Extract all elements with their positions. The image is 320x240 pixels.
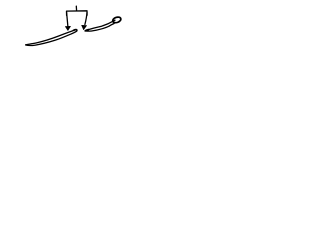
bracket B1 center tick [75,6,77,11]
wire W2 right segment top edge [88,20,115,29]
wire W1 left segment top edge [26,30,76,45]
wire W2 end loop [112,16,122,24]
wire W1 left segment bottom edge [26,31,77,46]
wire W2 right segment tip hook [85,30,88,31]
arrow A2 right leg [85,13,87,25]
wire W2 right segment bottom edge [86,23,115,31]
arrow A1 left leg [67,13,68,27]
bracket B1 top bar with end stubs [67,11,88,16]
wire W1 left end hook [73,29,77,31]
arrow A1 left head [65,26,70,30]
arrow A2 right head [82,25,87,29]
